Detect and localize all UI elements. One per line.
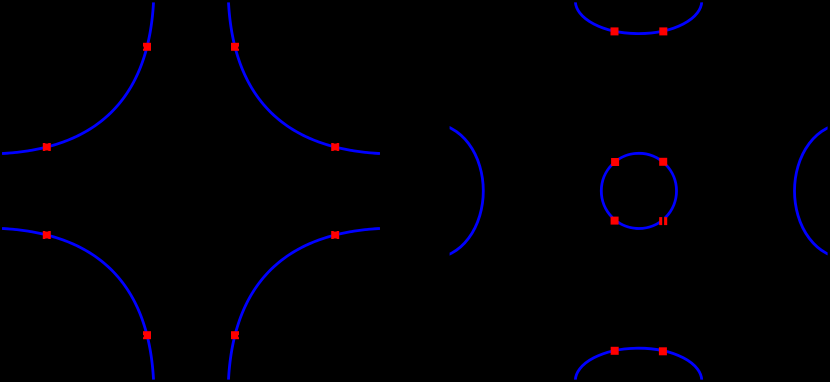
- hot spot marker L8: [231, 331, 239, 339]
- hot spot marker L3: [331, 143, 339, 151]
- hot spot marker L5: [43, 231, 51, 239]
- Fermi arc top-right (left panel): [229, 2, 381, 153]
- notch mark at (235,46.8): [238, 47, 239, 49]
- hot spot marker L6: [143, 331, 151, 339]
- Fermi arc bottom-left (left panel): [2, 228, 154, 379]
- circle hot spot BR marker: [659, 217, 667, 225]
- hot spot marker L1: [43, 143, 51, 151]
- top pocket hot spot L marker: [611, 27, 619, 35]
- top electron pocket ellipse: [575, 0, 701, 34]
- notch marks at (46.8,147): [45, 143, 48, 144]
- bottom electron pocket ellipse: [575, 348, 701, 382]
- circle hot spot TR marker: [659, 158, 667, 166]
- notch marks at (335.2,147): [334, 143, 337, 144]
- notch marks at (335.2,235): [334, 231, 337, 232]
- nesting vector slot over circle hot spot BR: [662, 217, 664, 227]
- notch mark at (235,335.2): [238, 335, 239, 337]
- Fermi arc bottom-right (left panel): [229, 228, 381, 379]
- bottom pocket hot spot L marker: [611, 347, 619, 355]
- right edge pocket arc: [795, 124, 830, 258]
- circle hot spot BL marker: [611, 217, 619, 225]
- bottom pocket hot spot R marker: [659, 347, 667, 355]
- circle hot spot TL marker: [611, 158, 619, 166]
- notch marks at (46.8,235): [45, 231, 48, 232]
- left edge pocket arc: [383, 124, 484, 258]
- top pocket hot spot R marker: [659, 27, 667, 35]
- gamma-pocket circle (right panel): [601, 153, 676, 228]
- hot spot marker L7: [331, 231, 339, 239]
- hot spot marker L4: [231, 43, 239, 51]
- notch mark at (147,46.8): [143, 47, 144, 49]
- notch mark at (147,335.2): [143, 335, 144, 337]
- Fermi arc top-left (left panel): [2, 2, 154, 153]
- hot spot marker L2: [143, 43, 151, 51]
